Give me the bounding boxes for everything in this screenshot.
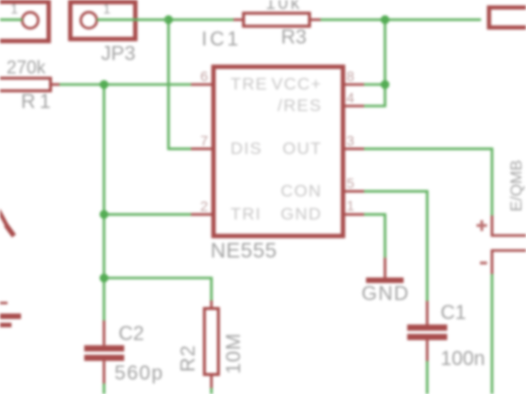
capacitor C2 [84, 321, 124, 384]
op IC1 NE555 body [214, 67, 344, 236]
battery G1 minus wire [492, 251, 526, 275]
battery minus sign [480, 262, 487, 265]
svg-text:1: 1 [103, 2, 111, 17]
svg-text:IC1: IC1 [202, 29, 242, 51]
svg-text:1: 1 [11, 2, 19, 17]
svg-text:JP3: JP3 [101, 43, 135, 65]
battery plus sign [477, 220, 488, 231]
svg-text:6: 6 [200, 68, 208, 84]
pin 4 stub [343, 105, 364, 108]
svg-text:R2: R2 [178, 344, 200, 372]
pin 5 stub [343, 190, 364, 193]
switch fragment left edge [0, 207, 14, 236]
svg-text:560p: 560p [115, 363, 164, 385]
pin 7 stub [191, 148, 214, 151]
svg-text:R1: R1 [21, 91, 55, 113]
wire battery minus down [491, 274, 494, 394]
wire C2 bottom [103, 384, 106, 394]
svg-text:C1: C1 [441, 302, 467, 324]
earth symbol fragment left edge [0, 303, 21, 325]
pin 2 stub [191, 213, 214, 216]
svg-text:NE555: NE555 [211, 240, 278, 263]
pin name labels [231, 75, 323, 224]
junction node pin8 [381, 80, 390, 89]
pin number labels [200, 68, 354, 214]
wire junction A2 to pin2 [104, 213, 191, 216]
svg-text:10M: 10M [223, 333, 245, 374]
wire VCC top rail JP2 to pad [0, 18, 22, 21]
junction node A2 [100, 210, 109, 219]
pin 3 stub [343, 148, 364, 151]
wire R3 right to junction C [321, 18, 386, 21]
connector JP2 body [0, 2, 49, 41]
wire pin4 to vertical [364, 85, 385, 107]
wire pin3 OUT to battery plus [364, 149, 492, 216]
pin 8 stub [343, 83, 364, 86]
wire R2 bottom [210, 388, 213, 394]
pin 1 stub [343, 213, 364, 216]
svg-text:VCC+: VCC+ [271, 75, 322, 94]
junction node A3 [100, 274, 109, 283]
wire junction C to top-right pad [385, 18, 481, 21]
svg-text:8: 8 [347, 68, 355, 84]
wire R1 to pin6 [60, 83, 192, 86]
svg-text:CON: CON [281, 182, 322, 201]
junction node B [164, 15, 173, 24]
svg-text:1: 1 [347, 198, 355, 214]
svg-text:3: 3 [347, 133, 355, 149]
wire pin1 to gnd [364, 214, 385, 257]
wire vertical B down to pin7 row [169, 20, 192, 149]
svg-text:100n: 100n [441, 348, 486, 370]
svg-text:R3: R3 [281, 27, 307, 49]
svg-text:5: 5 [347, 175, 355, 191]
connector JP4 pad top-right (cut off) [489, 8, 526, 28]
svg-text:10k: 10k [266, 0, 303, 13]
svg-text:270k: 270k [7, 58, 47, 78]
svg-text:TRE: TRE [231, 75, 269, 94]
connector JP3 body [70, 2, 135, 39]
junction node A [100, 80, 109, 89]
svg-text:2: 2 [200, 198, 208, 214]
svg-text:C2: C2 [119, 323, 145, 345]
capacitor C1 [407, 301, 447, 361]
svg-text:7: 7 [200, 133, 208, 149]
svg-text:GND: GND [281, 205, 322, 224]
wire pin5 to C1 [364, 191, 427, 301]
svg-text:TRI: TRI [231, 205, 262, 224]
resistor R3 body [234, 13, 321, 26]
svg-text:OUT: OUT [283, 139, 322, 158]
wire JP3 pad to junction B [97, 18, 169, 21]
wire vertical A down to C2 [103, 85, 106, 321]
pin 6 stub [191, 83, 214, 86]
wire pin8 to junction [364, 83, 385, 86]
resistor R1 body [0, 78, 60, 91]
battery G1 plus wire [492, 216, 526, 236]
svg-text:E/QMB: E/QMB [509, 160, 526, 212]
wire junction B to R3 left [169, 18, 234, 21]
svg-text:GND: GND [362, 283, 410, 305]
svg-text:4: 4 [347, 90, 355, 106]
junction node C [381, 15, 390, 24]
svg-text:/RES: /RES [278, 96, 322, 115]
wire vertical C down to pin8 junction [384, 20, 387, 85]
ground symbol GND [366, 258, 404, 281]
wire C1 bottom [426, 361, 429, 394]
resistor R2 body [204, 301, 218, 389]
svg-text:DIS: DIS [231, 139, 263, 158]
wire junction A3 to R2 top [104, 278, 211, 301]
